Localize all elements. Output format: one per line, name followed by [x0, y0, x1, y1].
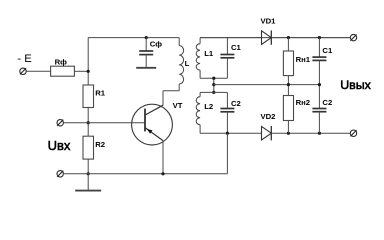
svg-text:VD2: VD2	[261, 112, 276, 121]
svg-text:Rф: Rф	[55, 57, 68, 66]
svg-text:L2: L2	[204, 102, 213, 111]
svg-text:Uвых: Uвых	[340, 78, 371, 92]
svg-text:VD1: VD1	[261, 16, 277, 25]
svg-text:C1: C1	[231, 43, 242, 52]
svg-text:Uвх: Uвх	[48, 138, 71, 153]
svg-text:VT: VT	[173, 101, 183, 110]
svg-text:- E: - E	[17, 53, 32, 65]
svg-text:C2: C2	[231, 99, 241, 108]
svg-text:L1: L1	[204, 49, 214, 58]
svg-text:C2: C2	[322, 98, 332, 107]
svg-text:Сф: Сф	[150, 39, 162, 48]
svg-text:C1: C1	[322, 46, 333, 55]
svg-text:L: L	[185, 59, 190, 68]
svg-text:Rн2: Rн2	[296, 98, 310, 107]
svg-text:R1: R1	[95, 89, 106, 98]
svg-text:R2: R2	[95, 140, 105, 149]
svg-text:Rн1: Rн1	[296, 55, 311, 64]
